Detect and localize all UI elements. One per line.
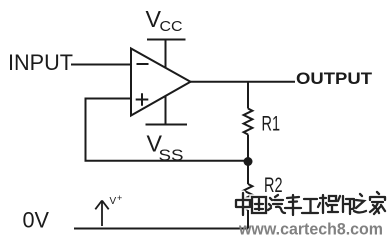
svg-text:INPUT: INPUT: [8, 50, 73, 75]
svg-text:www.cartech8.com: www.cartech8.com: [238, 220, 383, 239]
svg-text:+: +: [117, 193, 122, 203]
svg-text:OUTPUT: OUTPUT: [296, 70, 372, 88]
svg-text:SS: SS: [159, 148, 184, 165]
svg-text:R1: R1: [262, 112, 281, 136]
svg-text:0V: 0V: [23, 208, 50, 233]
svg-text:CC: CC: [160, 18, 183, 35]
svg-text:V: V: [110, 196, 117, 207]
